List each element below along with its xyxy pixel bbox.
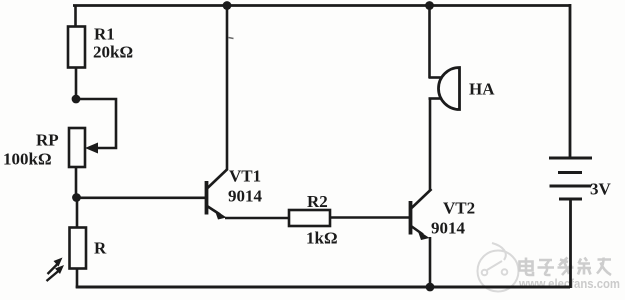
- battery BT plate long 2: [550, 185, 592, 188]
- svg-text:R: R: [94, 239, 107, 258]
- svg-text:R2: R2: [307, 192, 328, 211]
- wire: R2 to VT2 base: [330, 216, 409, 219]
- wire: bottom rail: [76, 286, 570, 289]
- wire: top rail to buzzer HA: [428, 5, 431, 78]
- light arrow 1: [48, 258, 63, 275]
- watermark logo (elecfans): [478, 243, 519, 292]
- transistor VT1: [207, 169, 228, 215]
- svg-text:100kΩ: 100kΩ: [3, 150, 52, 169]
- transistor VT2 emitter arrowhead: [418, 230, 430, 240]
- potentiometer RP wiper arrowhead: [85, 143, 98, 154]
- wire: VT1 collector riser: [226, 5, 229, 170]
- wire: left rail top segment: [74, 5, 77, 28]
- svg-text:VT1: VT1: [229, 167, 261, 186]
- svg-text:R1: R1: [94, 25, 115, 44]
- buzzer HA bottom stub: [429, 97, 443, 100]
- transistor VT1 emitter arrowhead: [215, 210, 227, 220]
- battery BT plate short 2: [559, 198, 582, 201]
- svg-text:9014: 9014: [228, 187, 263, 206]
- wire: R1 to RP node: [75, 67, 78, 100]
- potentiometer RP body: [69, 128, 85, 167]
- wire: VT2 collector riser: [429, 98, 432, 190]
- scan speck: [229, 38, 234, 39]
- svg-text:3V: 3V: [590, 180, 612, 199]
- svg-text:www.elecfans.com: www.elecfans.com: [518, 276, 620, 291]
- wire: base node to photoresistor R: [76, 197, 79, 228]
- svg-text:VT2: VT2: [443, 199, 475, 218]
- junction: RP top node: [72, 95, 81, 104]
- wire: RP to base node: [75, 167, 78, 198]
- wire: top rail: [73, 4, 570, 7]
- junction: VT1 collector / top rail: [223, 1, 232, 10]
- wire: VT1 emitter to R2: [225, 217, 289, 220]
- junction: base node: [72, 193, 81, 202]
- resistor R1: [68, 27, 85, 68]
- svg-text:HA: HA: [469, 80, 495, 99]
- transistor VT2: [411, 189, 432, 235]
- wire: right rail bottom: [569, 199, 572, 288]
- light arrow 2: [47, 265, 65, 281]
- battery BT plate short 1: [558, 171, 582, 174]
- wire: R to bottom rail: [76, 268, 79, 288]
- battery BT plate long 1: [549, 157, 592, 160]
- wire: wiper loop: [76, 99, 116, 148]
- wire: right rail top: [569, 4, 572, 157]
- svg-text:RP: RP: [36, 131, 59, 150]
- svg-text:1kΩ: 1kΩ: [306, 229, 338, 248]
- buzzer HA top stub: [429, 76, 443, 79]
- wire: VT2 emitter drop: [429, 237, 432, 288]
- watermark text 电子发烧友: [520, 258, 612, 276]
- svg-text:9014: 9014: [431, 219, 466, 238]
- buzzer HA half-disc: [439, 68, 460, 110]
- photoresistor R body: [70, 228, 87, 269]
- junction: VT2 emitter / bottom rail: [426, 283, 435, 292]
- wire: base node to VT1 base: [76, 197, 205, 200]
- junction: HA branch / top rail: [425, 1, 434, 10]
- svg-text:20kΩ: 20kΩ: [93, 43, 133, 62]
- resistor R2: [289, 210, 330, 226]
